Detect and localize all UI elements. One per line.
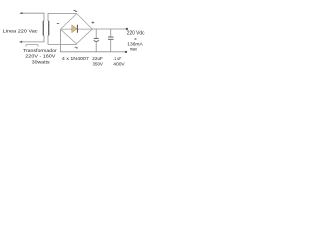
svg-text:max: max xyxy=(130,46,138,51)
svg-text:30watts: 30watts xyxy=(32,60,51,65)
svg-text:220V - 160V: 220V - 160V xyxy=(25,54,56,59)
svg-text:220 Vdc: 220 Vdc xyxy=(127,30,145,36)
svg-text:400V: 400V xyxy=(113,62,125,67)
svg-text:22uF: 22uF xyxy=(92,56,103,61)
svg-text:4 x 1N4007: 4 x 1N4007 xyxy=(62,56,89,61)
svg-text:350V: 350V xyxy=(93,62,104,67)
svg-text:.1 uF: .1 uF xyxy=(113,56,121,61)
svg-text:Transformador: Transformador xyxy=(23,48,57,53)
svg-text:Linea 220 Vac: Linea 220 Vac xyxy=(3,29,39,34)
